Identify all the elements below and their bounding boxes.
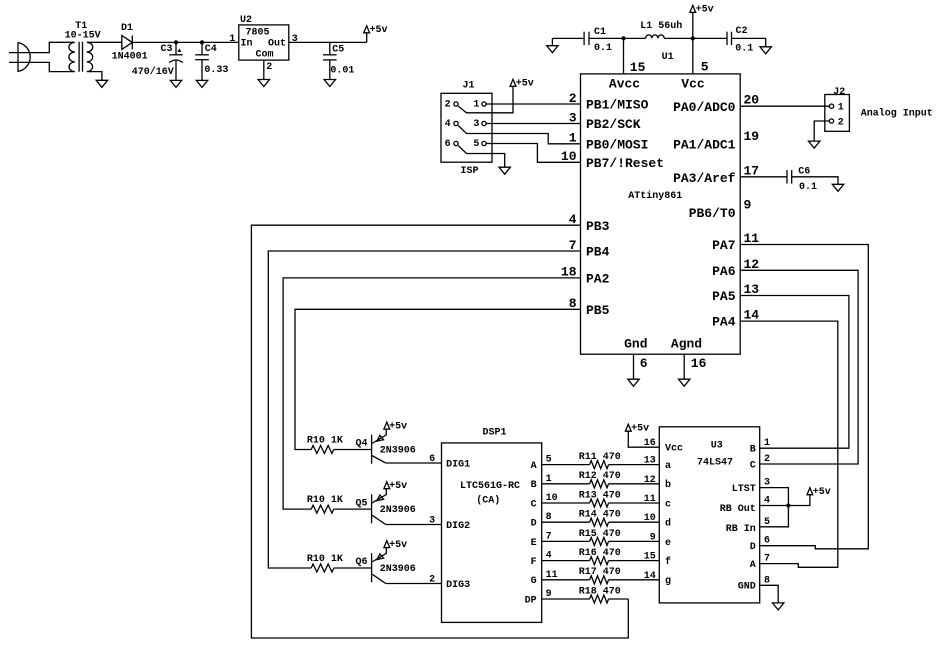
svg-text:PB3: PB3 bbox=[586, 219, 610, 234]
svg-text:b: b bbox=[665, 479, 671, 491]
svg-text:1: 1 bbox=[473, 100, 479, 111]
wire U1 PA0 to J2 pin1 bbox=[740, 105, 829, 107]
IC U1 ATtiny861 bbox=[561, 52, 759, 371]
capacitor C1 0.1 bbox=[584, 27, 612, 54]
power +5v (U2 output) bbox=[364, 25, 388, 43]
svg-text:PB2/SCK: PB2/SCK bbox=[586, 117, 641, 132]
ground (U2 Com) bbox=[258, 80, 269, 87]
capacitor C5 0.01 bbox=[323, 42, 354, 79]
svg-text:ISP: ISP bbox=[460, 166, 478, 177]
svg-text:R10 1K: R10 1K bbox=[307, 495, 343, 506]
ground (C4) bbox=[196, 80, 207, 87]
svg-text:Q5: Q5 bbox=[355, 498, 367, 509]
svg-text:11: 11 bbox=[644, 494, 656, 505]
svg-text:+5v: +5v bbox=[389, 540, 407, 551]
svg-text:PA5: PA5 bbox=[712, 289, 736, 304]
svg-text:R10 1K: R10 1K bbox=[307, 554, 343, 565]
wire U1 PA5 to U3 B bbox=[740, 296, 849, 449]
svg-text:B: B bbox=[531, 480, 537, 491]
svg-text:16: 16 bbox=[644, 438, 656, 449]
svg-text:U3: U3 bbox=[711, 440, 723, 451]
svg-text:R10 1K: R10 1K bbox=[307, 435, 343, 446]
connector J1 ISP bbox=[441, 81, 492, 177]
svg-text:PB1/MISO: PB1/MISO bbox=[586, 98, 649, 113]
resistor R11 470 bbox=[542, 452, 660, 469]
ground (C3) bbox=[170, 80, 181, 87]
svg-text:J1: J1 bbox=[462, 81, 474, 92]
svg-text:PB0/MOSI: PB0/MOSI bbox=[586, 137, 648, 152]
junction node C3 bbox=[174, 40, 178, 44]
wire Q4 collector to DSP1 bbox=[386, 462, 442, 464]
svg-text:PA6: PA6 bbox=[712, 264, 736, 279]
wire U1 PA7 to U3 D bbox=[740, 245, 868, 549]
svg-text:R17 470: R17 470 bbox=[579, 567, 621, 578]
svg-text:1: 1 bbox=[569, 131, 577, 146]
power +5v (Q5 emitter) bbox=[384, 482, 390, 489]
svg-text:Q6: Q6 bbox=[355, 557, 367, 568]
wire plug to T1 primary bbox=[33, 42, 67, 52]
wire U1 PA4 to U3 A bbox=[740, 321, 838, 567]
connector J2 Analog Input bbox=[825, 87, 933, 131]
ground (C6) bbox=[832, 184, 843, 191]
wire Vcc node to U1 pin 5 bbox=[692, 38, 694, 74]
svg-text:3: 3 bbox=[569, 110, 577, 125]
svg-text:Agnd: Agnd bbox=[671, 337, 702, 352]
junction node C4 bbox=[200, 40, 204, 44]
svg-text:LTST: LTST bbox=[732, 484, 756, 495]
svg-text:14: 14 bbox=[744, 308, 760, 323]
svg-text:+5v: +5v bbox=[516, 78, 534, 89]
svg-text:U1: U1 bbox=[662, 52, 674, 63]
ground (U3 GND) bbox=[773, 603, 784, 610]
power +5v (U3 Vcc) bbox=[625, 423, 659, 447]
resistor R10 1K (Q6) bbox=[307, 554, 343, 572]
wire U2 Com to ground bbox=[263, 60, 265, 79]
svg-text:+5v: +5v bbox=[813, 487, 831, 498]
svg-text:2: 2 bbox=[764, 454, 770, 465]
svg-text:7: 7 bbox=[764, 554, 770, 565]
svg-text:2N3906: 2N3906 bbox=[380, 446, 416, 457]
svg-text:2: 2 bbox=[266, 62, 272, 73]
svg-text:0.33: 0.33 bbox=[204, 65, 228, 76]
transistor Q5 2N3906 bbox=[355, 489, 415, 525]
capacitor C4 0.33 bbox=[195, 42, 228, 80]
svg-text:G: G bbox=[531, 576, 537, 587]
svg-text:A: A bbox=[531, 461, 537, 472]
power +5v (Vcc) bbox=[690, 5, 714, 39]
capacitor C3 470/16V bbox=[132, 42, 183, 80]
svg-text:+5v: +5v bbox=[389, 481, 407, 492]
wire J1 pin5 to U1 PB7/!Reset bbox=[486, 144, 580, 163]
wire C1 to Avcc node bbox=[589, 37, 646, 39]
svg-text:12: 12 bbox=[644, 475, 656, 486]
svg-text:15: 15 bbox=[630, 60, 646, 75]
wire U1 PA3/Aref to C6 bbox=[740, 176, 787, 178]
svg-text:Q4: Q4 bbox=[355, 439, 367, 450]
svg-text:LTC561G-RC: LTC561G-RC bbox=[460, 481, 520, 492]
wire R10 to Q6 base bbox=[334, 567, 372, 569]
svg-text:F: F bbox=[531, 557, 537, 568]
svg-text:12: 12 bbox=[744, 257, 760, 272]
svg-text:g: g bbox=[665, 576, 671, 587]
svg-text:DSP1: DSP1 bbox=[482, 428, 506, 439]
svg-text:13: 13 bbox=[644, 456, 656, 467]
ground (J2) bbox=[809, 141, 820, 148]
wire C2 to ground bbox=[732, 38, 766, 46]
power +5v (Q6 emitter) bbox=[384, 541, 390, 548]
svg-text:R18 470: R18 470 bbox=[579, 586, 621, 597]
wire ground to C1 bbox=[552, 37, 584, 39]
svg-text:15: 15 bbox=[644, 552, 656, 563]
svg-text:C5: C5 bbox=[332, 44, 344, 55]
svg-text:RB In: RB In bbox=[726, 524, 756, 535]
wire U3 GND to ground bbox=[760, 585, 779, 603]
node Avcc junction bbox=[621, 36, 625, 40]
svg-text:d: d bbox=[665, 518, 671, 530]
wire U1 PB4 to R10 (Q6) bbox=[268, 251, 580, 568]
svg-text:(CA): (CA) bbox=[476, 495, 500, 507]
power +5v (Q4 emitter) bbox=[384, 422, 390, 429]
svg-text:74LS47: 74LS47 bbox=[697, 458, 733, 469]
wire U3 LTST/RB In tie bbox=[760, 488, 789, 527]
wire U1 Gnd pin6 to ground bbox=[633, 354, 635, 379]
wire U1 Agnd pin16 to ground bbox=[683, 354, 685, 379]
svg-text:10: 10 bbox=[561, 149, 577, 164]
wire U1 PA2 to R10 (Q5) bbox=[283, 278, 580, 509]
svg-text:20: 20 bbox=[744, 93, 760, 108]
wire J1 pin4 to U1 PB0/MOSI bbox=[458, 126, 580, 144]
svg-text:e: e bbox=[665, 538, 671, 549]
svg-text:7805: 7805 bbox=[245, 28, 269, 39]
svg-text:R14 470: R14 470 bbox=[579, 510, 621, 521]
wire Q5 collector to DSP1 bbox=[386, 524, 442, 526]
svg-text:PA1/ADC1: PA1/ADC1 bbox=[673, 138, 736, 153]
svg-text:C: C bbox=[750, 460, 756, 471]
svg-text:C3: C3 bbox=[160, 44, 172, 55]
ground (T1) bbox=[96, 80, 107, 87]
resistor R10 1K (Q4) bbox=[307, 435, 343, 453]
svg-text:+5v: +5v bbox=[370, 25, 388, 36]
svg-text:PA4: PA4 bbox=[712, 315, 736, 330]
resistor R14 470 bbox=[542, 510, 660, 527]
junction node RB Out bbox=[786, 503, 790, 507]
ground (C1) bbox=[547, 38, 558, 52]
svg-text:R11 470: R11 470 bbox=[579, 452, 621, 463]
svg-text:PB7/!Reset: PB7/!Reset bbox=[586, 156, 664, 171]
resistor R16 470 bbox=[542, 548, 660, 565]
AC plug P1 bbox=[9, 43, 33, 72]
capacitor C6 0.1 bbox=[787, 167, 817, 193]
svg-text:R12 470: R12 470 bbox=[579, 471, 621, 482]
svg-text:Com: Com bbox=[255, 50, 273, 61]
svg-text:PA2: PA2 bbox=[586, 272, 610, 287]
svg-text:C6: C6 bbox=[798, 167, 810, 178]
svg-text:2N3906: 2N3906 bbox=[380, 505, 416, 516]
svg-text:PB5: PB5 bbox=[586, 303, 610, 318]
svg-text:RB Out: RB Out bbox=[720, 504, 756, 515]
svg-text:1: 1 bbox=[764, 438, 770, 449]
svg-text:PA7: PA7 bbox=[712, 238, 735, 253]
svg-text:470/16V: 470/16V bbox=[132, 66, 174, 78]
wire U1 PB3 to R18/DP (bottom rail) bbox=[251, 225, 628, 638]
ground (U1 Gnd) bbox=[628, 379, 639, 386]
svg-text:2N3906: 2N3906 bbox=[380, 564, 416, 575]
svg-text:2: 2 bbox=[569, 91, 577, 106]
svg-text:6: 6 bbox=[764, 536, 770, 547]
svg-text:D: D bbox=[531, 519, 537, 530]
svg-text:Analog Input: Analog Input bbox=[861, 107, 933, 119]
resistor R15 470 bbox=[542, 529, 660, 546]
svg-text:+5v: +5v bbox=[631, 423, 649, 434]
svg-text:Avcc: Avcc bbox=[609, 77, 640, 92]
resistor R17 470 bbox=[542, 567, 660, 584]
ground (U1 Agnd) bbox=[679, 379, 690, 386]
svg-text:B: B bbox=[750, 445, 756, 456]
svg-text:L1 56uh: L1 56uh bbox=[640, 20, 682, 32]
svg-text:GND: GND bbox=[738, 582, 756, 593]
svg-text:PB4: PB4 bbox=[586, 245, 610, 260]
svg-text:Gnd: Gnd bbox=[624, 337, 647, 352]
svg-text:2: 2 bbox=[429, 575, 435, 586]
svg-text:C2: C2 bbox=[736, 26, 748, 37]
svg-text:+5v: +5v bbox=[696, 5, 714, 16]
svg-text:10: 10 bbox=[644, 513, 656, 524]
svg-text:0.1: 0.1 bbox=[735, 44, 753, 55]
wire J1 pin6 to ground bbox=[458, 146, 505, 168]
svg-text:+5v: +5v bbox=[389, 422, 407, 433]
svg-text:9: 9 bbox=[650, 532, 656, 543]
svg-text:ATtiny861: ATtiny861 bbox=[628, 190, 682, 202]
wire C6 to ground bbox=[792, 177, 838, 185]
node Vcc junction bbox=[691, 36, 695, 40]
svg-text:DIG1: DIG1 bbox=[446, 459, 470, 470]
svg-text:DIG3: DIG3 bbox=[446, 580, 470, 591]
wire R10 to Q5 base bbox=[334, 508, 372, 510]
svg-text:Out: Out bbox=[268, 39, 286, 50]
transistor Q6 2N3906 bbox=[355, 548, 415, 584]
wire T1 secondary to D1 bbox=[96, 41, 122, 43]
wire L1 to Vcc node bbox=[664, 37, 727, 39]
power +5v (U3 RB) bbox=[807, 488, 813, 495]
svg-text:9: 9 bbox=[744, 198, 752, 213]
wire Q6 collector to DSP1 bbox=[386, 583, 442, 585]
wire R10 to Q4 base bbox=[334, 449, 372, 451]
svg-text:4: 4 bbox=[445, 119, 451, 130]
svg-text:J2: J2 bbox=[833, 87, 845, 98]
svg-text:2: 2 bbox=[838, 118, 844, 129]
svg-text:R15 470: R15 470 bbox=[579, 529, 621, 540]
svg-text:PB6/T0: PB6/T0 bbox=[689, 206, 736, 221]
regulator U2 7805 bbox=[229, 15, 297, 73]
svg-text:PA0/ADC0: PA0/ADC0 bbox=[673, 100, 736, 115]
svg-text:3: 3 bbox=[292, 34, 298, 45]
svg-text:6: 6 bbox=[445, 139, 451, 150]
svg-text:5: 5 bbox=[473, 139, 479, 150]
svg-text:A: A bbox=[750, 560, 756, 571]
svg-text:f: f bbox=[665, 556, 671, 568]
svg-text:PA3/Aref: PA3/Aref bbox=[673, 171, 736, 186]
svg-text:C1: C1 bbox=[594, 27, 606, 38]
wire J1 pin2 to +5v bbox=[458, 86, 513, 113]
wire Avcc node to U1 pin 15 bbox=[623, 38, 625, 74]
wire U1 PA6 to U3 C bbox=[740, 270, 858, 464]
svg-text:11: 11 bbox=[744, 231, 760, 246]
svg-text:C: C bbox=[531, 499, 537, 510]
svg-text:1: 1 bbox=[838, 103, 844, 114]
svg-text:6: 6 bbox=[640, 356, 648, 371]
wire plug to T1 primary lower bbox=[33, 62, 67, 71]
display DSP1 LTC561G-RC (CA) bbox=[442, 428, 558, 623]
wire J1 pin3 to U1 PB2/SCK bbox=[486, 123, 580, 125]
transformer T1 bbox=[65, 21, 101, 72]
IC U3 74LS47 bbox=[644, 427, 770, 603]
svg-text:C4: C4 bbox=[205, 44, 217, 55]
svg-text:17: 17 bbox=[744, 163, 760, 178]
svg-text:3: 3 bbox=[473, 119, 479, 130]
svg-text:13: 13 bbox=[744, 282, 760, 297]
svg-text:19: 19 bbox=[744, 129, 760, 144]
resistor R10 1K (Q5) bbox=[307, 495, 343, 513]
svg-text:E: E bbox=[531, 538, 537, 549]
svg-text:1: 1 bbox=[229, 34, 235, 45]
inductor L1 56uh bbox=[640, 20, 682, 38]
wire U1 PB5 to R10 (Q4) bbox=[295, 309, 581, 449]
diode D1 1N4001 bbox=[112, 23, 148, 62]
wire D1 to U2 In bbox=[132, 41, 239, 43]
resistor R12 470 bbox=[542, 471, 660, 488]
wire J2 pin2 to ground bbox=[814, 121, 829, 141]
svg-text:D: D bbox=[750, 542, 756, 553]
svg-text:0.1: 0.1 bbox=[594, 43, 612, 54]
svg-text:2: 2 bbox=[445, 100, 451, 111]
svg-text:a: a bbox=[665, 461, 671, 472]
wire J1 pin1 to U1 PB1/MISO bbox=[486, 103, 580, 105]
svg-text:0.01: 0.01 bbox=[330, 65, 354, 76]
capacitor C2 0.1 bbox=[727, 26, 753, 54]
svg-text:U2: U2 bbox=[240, 15, 252, 26]
power +5v (J1) bbox=[510, 79, 516, 86]
svg-text:Vcc: Vcc bbox=[665, 444, 683, 455]
svg-text:Vcc: Vcc bbox=[681, 77, 705, 92]
svg-text:0.1: 0.1 bbox=[799, 182, 817, 193]
svg-text:3: 3 bbox=[429, 516, 435, 527]
svg-text:DIG2: DIG2 bbox=[446, 521, 470, 532]
svg-text:R16 470: R16 470 bbox=[579, 548, 621, 559]
svg-text:In: In bbox=[241, 39, 253, 50]
svg-text:5: 5 bbox=[701, 60, 709, 75]
svg-text:16: 16 bbox=[691, 356, 707, 371]
wire T1 secondary to ground bbox=[96, 72, 102, 81]
transistor Q4 2N3906 bbox=[355, 429, 415, 464]
svg-text:c: c bbox=[665, 499, 671, 510]
svg-text:6: 6 bbox=[429, 454, 435, 465]
svg-text:R13 470: R13 470 bbox=[579, 490, 621, 501]
wire U2 Out to +5v bbox=[289, 41, 367, 43]
ground (C2) bbox=[760, 47, 771, 54]
ground (C5) bbox=[324, 80, 335, 87]
svg-text:14: 14 bbox=[644, 571, 656, 582]
svg-text:1N4001: 1N4001 bbox=[112, 51, 148, 62]
svg-text:10-15V: 10-15V bbox=[65, 31, 101, 42]
resistor R18 470 bbox=[542, 586, 629, 603]
svg-text:DP: DP bbox=[525, 595, 537, 606]
ground (J1 pin6) bbox=[499, 167, 510, 174]
wire U3 RB Out to +5v bbox=[760, 495, 810, 506]
resistor R13 470 bbox=[542, 490, 660, 507]
svg-text:D1: D1 bbox=[121, 23, 133, 34]
